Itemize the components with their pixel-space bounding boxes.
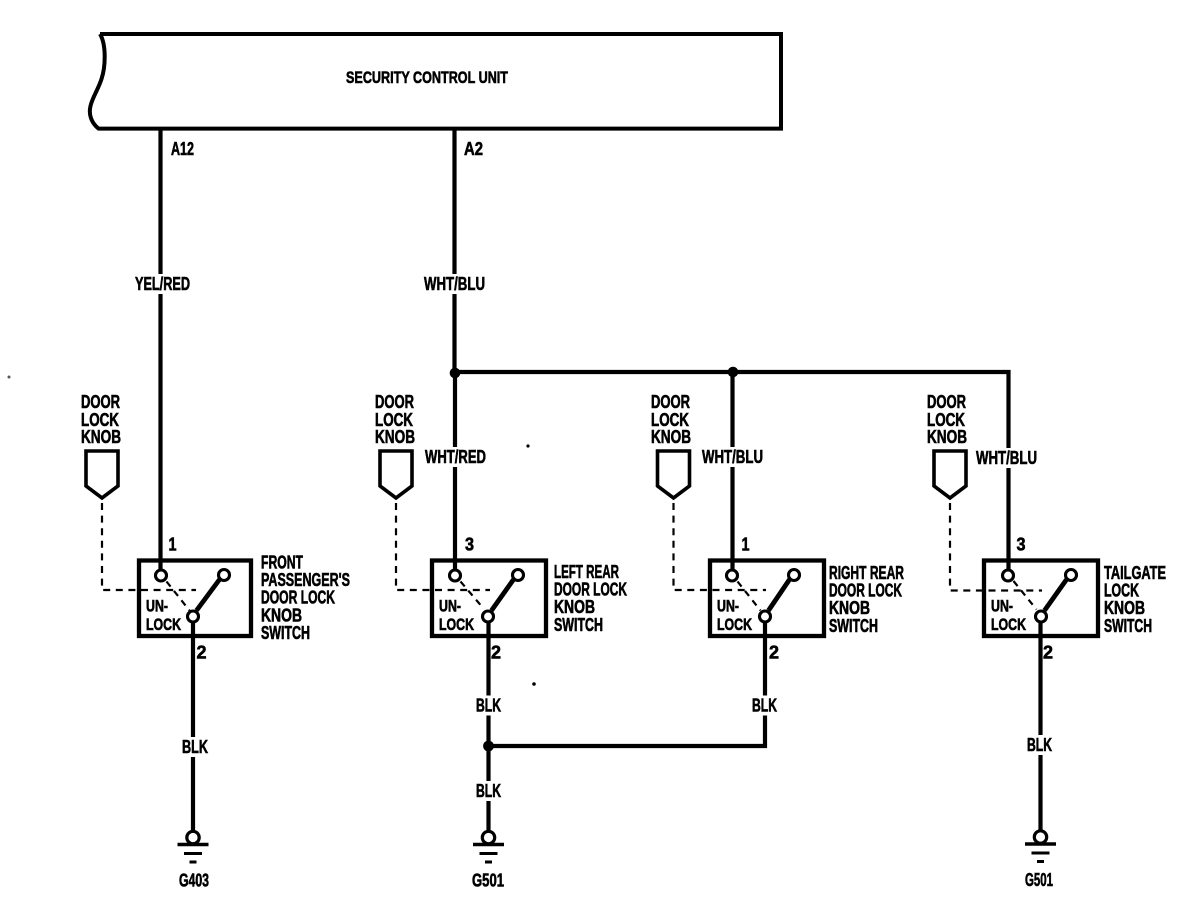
svg-text:SWITCH: SWITCH [261, 623, 310, 643]
scan speck [8, 376, 11, 379]
wire BLK from tailgate switch pin 2 to G501 [1038, 621, 1042, 830]
wire label BLK (front passenger) [180, 737, 211, 757]
svg-text:BLK: BLK [752, 696, 777, 716]
switch lever [769, 580, 790, 611]
wire label BLK (to G501) [474, 781, 504, 801]
svg-text:KNOB: KNOB [651, 427, 691, 447]
svg-text:2: 2 [769, 643, 779, 663]
svg-text:WHT/RED: WHT/RED [425, 447, 486, 467]
svg-text:LOCK: LOCK [717, 616, 752, 634]
switch pin 3 terminal circle [450, 570, 461, 581]
svg-text:2: 2 [491, 643, 501, 663]
svg-text:2: 2 [1043, 643, 1053, 663]
wire BLK from right rear switch pin 2 to ground junction [490, 622, 765, 746]
svg-text:A2: A2 [464, 139, 483, 159]
wire label BLK (right rear) [750, 696, 780, 716]
dashed mechanical linkage from tailgate knob to switch [950, 503, 1042, 591]
svg-text:KNOB: KNOB [81, 427, 121, 447]
svg-text:LOCK: LOCK [991, 616, 1026, 634]
svg-text:DOOR: DOOR [375, 392, 414, 412]
svg-text:G403: G403 [179, 871, 209, 891]
switch lever [1045, 580, 1067, 611]
wire WHT/BLU bus from junction to tailgate branch corner [453, 372, 1009, 570]
svg-text:LOCK: LOCK [439, 616, 474, 634]
switch pin 3 terminal circle [1003, 570, 1014, 581]
scan speck [526, 444, 529, 447]
switch pin 1 terminal circle [727, 570, 738, 581]
wire YEL/RED from U1 pin A12 to front passenger switch pin 1 [158, 127, 162, 570]
switch lever [492, 580, 514, 611]
svg-text:KNOB: KNOB [375, 427, 415, 447]
switch throw terminal circle [219, 570, 230, 581]
dashed mechanical linkage from front passenger knob to switch [102, 503, 196, 590]
dashed mechanical linkage from right rear knob to switch [674, 503, 767, 590]
svg-text:SWITCH: SWITCH [554, 615, 603, 635]
svg-text:SWITCH: SWITCH [1104, 616, 1152, 636]
switch common terminal circle [483, 611, 494, 622]
ground symbol G403 [187, 831, 199, 843]
svg-text:LOCK: LOCK [146, 616, 181, 634]
svg-text:3: 3 [1017, 535, 1026, 555]
junction dot right rear branch [728, 367, 739, 378]
security control unit box [90, 34, 781, 129]
wire WHT/BLU from U1 pin A2 to junction [452, 127, 456, 374]
scan speck [532, 682, 536, 686]
wire label WHT/BLU [422, 274, 488, 294]
right rear door lock knob switch S3 box [710, 561, 824, 637]
wire label BLK (tailgate) [1025, 735, 1055, 755]
svg-text:BLK: BLK [182, 737, 208, 757]
wire WHT/RED from junction to left rear switch pin 3 [453, 374, 457, 570]
svg-text:SECURITY CONTROL UNIT: SECURITY CONTROL UNIT [346, 68, 508, 87]
switch common terminal circle [1036, 611, 1047, 622]
junction dot on A2 wire [450, 368, 461, 379]
wire label WHT/BLU (tailgate) [974, 448, 1040, 468]
svg-text:1: 1 [169, 535, 177, 555]
svg-text:UN-: UN- [991, 598, 1013, 616]
svg-text:BLK: BLK [476, 696, 501, 716]
tailgate lock knob switch S4 box [984, 561, 1098, 637]
front passenger door lock knob switch S1 box [139, 561, 251, 637]
door lock knob connector symbol (right rear) [658, 451, 690, 498]
svg-text:DOOR: DOOR [81, 392, 120, 412]
wire label WHT/BLU (right rear) [700, 447, 766, 467]
svg-text:A12: A12 [171, 139, 194, 159]
svg-text:2: 2 [197, 643, 207, 663]
left rear door lock knob switch S2 box [432, 561, 546, 637]
svg-text:KNOB: KNOB [927, 427, 967, 447]
svg-text:WHT/BLU: WHT/BLU [976, 448, 1037, 468]
svg-text:1: 1 [742, 535, 750, 555]
switch throw terminal circle [789, 570, 800, 581]
door lock knob connector symbol (tailgate) [934, 451, 966, 498]
svg-text:BLK: BLK [1027, 735, 1052, 755]
svg-text:DOOR: DOOR [651, 392, 690, 412]
svg-text:SWITCH: SWITCH [829, 616, 878, 636]
wire label WHT/RED [423, 447, 489, 467]
svg-text:YEL/RED: YEL/RED [135, 274, 190, 294]
svg-text:G501: G501 [472, 871, 504, 891]
ground symbol G501 (tailgate) [1034, 831, 1046, 843]
svg-text:UN-: UN- [717, 598, 739, 616]
wire BLK from front passenger switch pin 2 to G403 [191, 622, 195, 830]
switch common terminal circle [760, 611, 771, 622]
door lock knob connector symbol (left rear) [380, 451, 412, 498]
svg-text:G501: G501 [1025, 870, 1053, 890]
switch common terminal circle [188, 611, 199, 622]
svg-text:BLK: BLK [476, 781, 501, 801]
switch pin 1 terminal circle [156, 570, 167, 581]
wire WHT/BLU from junction to right rear switch pin 1 [730, 372, 734, 570]
junction dot BLK ground bus [483, 741, 494, 752]
wire label YEL/RED [133, 274, 193, 294]
dashed mechanical linkage from left rear knob to switch [396, 503, 490, 590]
door lock knob connector symbol (front passenger) [86, 451, 118, 498]
svg-text:3: 3 [465, 535, 474, 555]
switch lever [197, 580, 220, 611]
svg-text:UN-: UN- [439, 598, 461, 616]
svg-text:WHT/BLU: WHT/BLU [424, 274, 485, 294]
ground symbol G501 (rear doors) [482, 831, 494, 843]
svg-text:UN-: UN- [146, 598, 168, 616]
svg-text:DOOR: DOOR [927, 392, 966, 412]
wire label BLK (left rear) [474, 696, 504, 716]
switch throw terminal circle [1066, 570, 1077, 581]
wire BLK from left rear switch pin 2 through junction to G501 [486, 622, 490, 830]
svg-text:WHT/BLU: WHT/BLU [702, 447, 763, 467]
switch throw terminal circle [513, 570, 524, 581]
